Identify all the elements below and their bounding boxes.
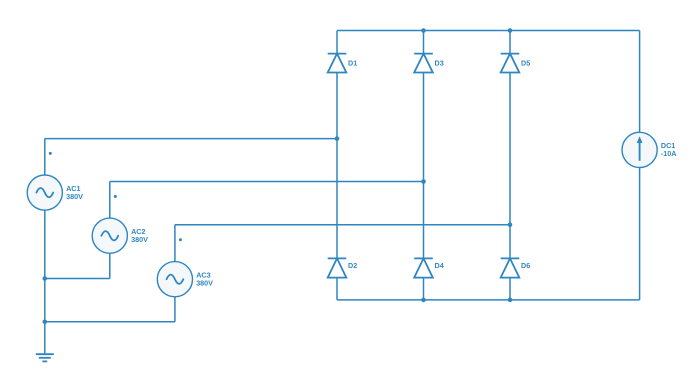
junction dot bottom bus / D6 branch [508,298,513,303]
wire D6 anode to bottom bus [509,278,511,300]
wire negative DC bus (bottom) [337,299,640,301]
svg-text:D5: D5 [521,58,530,67]
wire D3 cathode to top bus [423,31,425,54]
junction dot phase B / D3-D4 branch [421,179,426,184]
svg-text:D4: D4 [435,261,444,270]
svg-text:D6: D6 [521,261,530,270]
wire AC2 positive terminal up [109,182,111,219]
label AC1 380V [66,184,83,201]
svg-text:-10A: -10A [661,149,677,158]
AC source AC2 [92,218,127,253]
wire phase C horizontal, AC3 to D5/D6 node [175,224,510,226]
wire AC2 return to neutral node [45,278,110,280]
diode D5 [501,54,520,73]
svg-text:D1: D1 [348,58,357,67]
diode D1 [328,54,347,73]
wire phase B horizontal, AC2 to D3/D4 node [110,181,424,183]
label AC2 380V [131,227,148,244]
junction dot neutral / AC2 return [43,276,48,281]
label D3 [435,58,444,67]
svg-text:380V: 380V [131,235,148,244]
svg-text:D2: D2 [348,261,357,270]
label AC3 380V [196,271,213,288]
AC source AC1 [27,175,62,210]
AC source AC3 [157,262,192,297]
wire D5 cathode to top bus [509,31,511,54]
wire D4 anode to bottom bus [423,278,425,300]
current source DC1 [622,132,657,167]
wire D3 anode to D4 cathode [423,73,425,259]
junction dot top bus / D5 branch [508,28,513,33]
wire D1 cathode to top bus [336,31,338,54]
wire DC1 bottom terminal to negative bus [639,168,641,300]
wire D1 anode to D2 cathode [336,73,338,259]
diode D3 [414,54,433,73]
polarity dot AC2 [114,195,117,198]
wire AC3 return to neutral node [45,321,175,323]
junction dot top bus / D3 branch [421,28,426,33]
wire positive DC bus (top) [337,30,640,32]
wire AC1 positive terminal up [44,139,46,175]
label D5 [521,58,530,67]
wire phase A horizontal, AC1 to D1/D2 node [45,138,337,140]
label DC1 -10A [661,141,677,158]
svg-text:380V: 380V [196,279,213,288]
diode D4 [414,258,433,277]
wire right vertical, top bus to DC1 top terminal [639,31,641,133]
label D6 [521,261,530,270]
wire D5 anode to D6 cathode [509,73,511,259]
label D1 [348,58,357,67]
polarity dot AC1 [49,152,52,155]
polarity dot AC3 [179,238,182,241]
label D4 [435,261,444,270]
wire AC3 positive terminal up [174,225,176,262]
junction dot phase C / D5-D6 branch [508,222,513,227]
diode D6 [501,258,520,277]
wire AC2 negative terminal down [109,253,111,278]
junction dot phase A / D1-D2 branch [335,136,340,141]
ground [36,354,54,361]
diode D2 [328,258,347,277]
label D2 [348,261,357,270]
junction dot bottom bus / D4 branch [421,298,426,303]
wire D2 anode to bottom bus [336,278,338,300]
wire AC3 negative terminal down [174,297,176,322]
junction dot neutral / AC3 return [43,320,48,325]
svg-text:380V: 380V [66,192,83,201]
wire AC1 negative terminal down to ground [44,210,46,354]
svg-text:D3: D3 [435,58,444,67]
